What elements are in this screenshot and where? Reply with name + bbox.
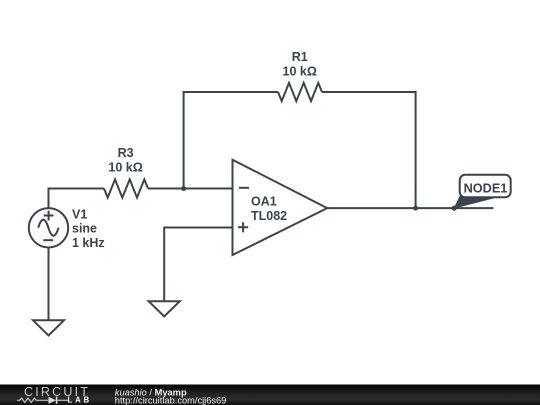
voltage source V1 circle [29,208,68,247]
logo diode symbol [49,397,57,404]
logo diode cathode bar [56,397,58,404]
svg-text:OA1: OA1 [251,195,277,209]
op-amp plus input sign [238,222,248,232]
wire V1 top to R3 [49,189,105,209]
wire V1 bottom to ground [48,247,50,320]
junction dot at NODE1 attach point [452,206,457,211]
resistor R1 [278,83,322,101]
NODE1 flag box [460,175,511,198]
V1 minus sign [43,239,53,241]
svg-text:sine: sine [72,222,97,236]
svg-text:R3: R3 [118,146,134,160]
ground GND2 [149,301,180,316]
footer bar [0,385,540,405]
NODE1 flag pointer wedge [454,194,497,209]
wire noninverting input to ground [164,228,232,302]
ground GND1 [33,320,64,335]
svg-text:NODE1: NODE1 [464,181,508,195]
logo wire to LAB [57,399,68,401]
wire output [327,207,493,209]
V1 plus sign [44,211,54,221]
op-amp minus input sign [239,187,249,189]
op-amp U1 triangle [233,160,328,255]
junction dot at output/feedback node [413,206,418,211]
svg-text:http://circuitlab.com/cjj6s69: http://circuitlab.com/cjj6s69 [115,395,227,405]
wire feedback left vertical [184,92,278,189]
svg-text:1 kHz: 1 kHz [72,236,105,250]
wire R1 to output vertical [322,92,416,208]
logo resistor squiggle [17,398,49,402]
svg-text:R1: R1 [292,50,308,64]
svg-text:V1: V1 [72,208,87,222]
svg-text:LAB: LAB [68,396,92,405]
V1 sine symbol [38,220,58,236]
svg-text:10 kΩ: 10 kΩ [108,160,142,174]
wire R3 to op-amp inverting input [148,188,233,190]
svg-text:TL082: TL082 [251,209,287,223]
junction dot at R3/feedback node [181,186,186,191]
resistor R3 [104,179,148,197]
svg-text:10 kΩ: 10 kΩ [283,65,317,79]
